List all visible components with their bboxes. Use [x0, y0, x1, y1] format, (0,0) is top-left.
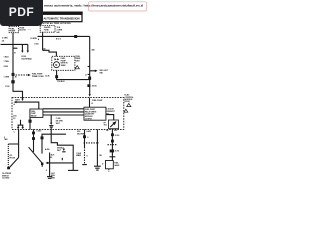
- oil switch foot: [7, 167, 10, 169]
- blob on relay bottom wire: [29, 120, 32, 123]
- branch arrow right from W3: [90, 70, 96, 72]
- wire P with corner: [42, 134, 66, 153]
- svg-text:1 TAN: 1 TAN: [4, 60, 10, 63]
- wire W3 vertical: [89, 36, 91, 94]
- wire A: [84, 129, 86, 147]
- oil switch arm: [10, 158, 19, 168]
- junction blob on W1: [12, 73, 15, 76]
- stub below open box: [108, 169, 110, 172]
- pump motor circle: [54, 62, 60, 68]
- svg-text:40: 40: [15, 76, 17, 79]
- ground G117: [47, 176, 52, 178]
- svg-text:C: C: [14, 131, 16, 133]
- thick wire T: [96, 129, 98, 166]
- connector blob on pump wire: [55, 75, 58, 78]
- warning triangle 3: [124, 109, 128, 112]
- step wire W2 to pump box: [43, 50, 57, 56]
- internal arrow line to relay: [15, 102, 39, 109]
- oil switch fixed post: [18, 144, 20, 158]
- svg-text:A 450: A 450: [45, 148, 50, 151]
- switch 2 contact dot: [41, 163, 43, 165]
- svg-text:RELAY: RELAY: [31, 114, 38, 117]
- svg-text:HOT AT ALL TIMES: HOT AT ALL TIMES: [43, 22, 60, 25]
- svg-text:3 ORN: 3 ORN: [2, 37, 8, 39]
- svg-text:AUTOMATIC TRANSMISSION: AUTOMATIC TRANSMISSION: [44, 17, 80, 21]
- svg-text:BLOCK: BLOCK: [19, 30, 26, 32]
- svg-text:A 450: A 450: [86, 130, 91, 133]
- warning triangle 1: [75, 66, 79, 69]
- fuse dashed box F2: [40, 26, 55, 33]
- oil switch feed wire: [8, 129, 18, 144]
- wire W1 main left vertical: [13, 33, 23, 100]
- wire H1 row: [1, 43, 28, 45]
- blob on wire P: [41, 136, 44, 139]
- ECM dashed boundary: [12, 98, 124, 130]
- svg-text:UNIT: UNIT: [75, 60, 80, 62]
- H1 drop 2: [27, 44, 29, 51]
- wire W2 from fuse F2: [42, 32, 44, 50]
- svg-text:440: 440: [92, 49, 95, 52]
- pin tick on W3 lower: [88, 73, 90, 75]
- svg-text:150: 150: [99, 155, 102, 157]
- svg-text:15 BRN: 15 BRN: [30, 38, 37, 40]
- svg-text:B: B: [14, 53, 16, 55]
- fuse block dashed box F1: [9, 26, 18, 32]
- red link box: [89, 2, 147, 11]
- svg-text:C100: C100: [34, 43, 38, 45]
- A end bar: [82, 164, 87, 166]
- svg-text:S 211: S 211: [115, 151, 119, 153]
- connector blob 2 on W1: [11, 80, 14, 83]
- wire R to ground: [49, 153, 51, 177]
- W3 pin stub: [89, 98, 91, 108]
- svg-text:WHT: WHT: [57, 150, 62, 152]
- connector bars: [49, 125, 53, 127]
- ground under T: [94, 165, 101, 167]
- W1 stub right: [13, 47, 17, 49]
- svg-text:C D16: C D16: [36, 131, 41, 133]
- tick bar: [110, 156, 116, 158]
- svg-text:450: 450: [76, 154, 79, 157]
- svg-text:B C D: B C D: [56, 39, 62, 41]
- deco triangle mid bottom: [63, 149, 65, 151]
- svg-text:G: G: [86, 155, 88, 157]
- relay bottom wire: [29, 117, 31, 129]
- open box component: [106, 161, 114, 169]
- ECM pin stub arrows bottom-left: [18, 124, 24, 126]
- svg-text:BATT: BATT: [15, 99, 21, 102]
- wire W_mid: [33, 129, 35, 152]
- svg-text:A5: A5: [106, 129, 108, 132]
- Q ground bar: [68, 169, 78, 171]
- warning triangle 2: [127, 103, 131, 106]
- dashed connector row: [84, 142, 100, 144]
- svg-text:S: S: [87, 137, 89, 139]
- pin tick on W3 upper: [88, 66, 90, 68]
- svg-text:A: A: [85, 73, 87, 76]
- relay to ECM label box wires: [43, 108, 84, 110]
- H1 drop 1: [21, 44, 23, 51]
- svg-text:S168: S168: [4, 66, 8, 68]
- switch 2 arm: [29, 147, 43, 163]
- svg-text:emas automotriz, web: http://m: emas automotriz, web: http://mecanicaaut…: [44, 4, 143, 8]
- svg-text:D1: D1: [13, 118, 15, 120]
- pump feed arrows inside: [55, 58, 57, 60]
- splice blob 2 on W3: [87, 84, 90, 87]
- svg-text:TAN: TAN: [4, 138, 8, 141]
- svg-text:2A: 2A: [2, 40, 5, 43]
- svg-text:WHT: WHT: [56, 123, 61, 125]
- wire Q stepped: [51, 128, 73, 171]
- svg-text:S 210: S 210: [115, 135, 119, 137]
- svg-text:.......: .......: [28, 28, 32, 30]
- relay coil box: [109, 120, 119, 129]
- dashed branch arrow from W1: [13, 74, 28, 76]
- wire H2 horizontal: [38, 35, 90, 37]
- svg-text:HOT IN RUN: HOT IN RUN: [60, 23, 71, 25]
- W1 pin arrowhead into ECM: [21, 99, 23, 101]
- title box: [41, 12, 82, 22]
- svg-text:C 439: C 439: [56, 117, 61, 120]
- svg-text:150 BLK: 150 BLK: [57, 81, 65, 83]
- ECM label box: [84, 107, 106, 120]
- svg-text:1 BLK: 1 BLK: [4, 57, 10, 59]
- wire label box to coil box: [106, 115, 114, 120]
- svg-text:PRIME CONN: PRIME CONN: [32, 76, 44, 78]
- svg-text:A: A: [14, 103, 16, 106]
- svg-text:SIG: SIG: [104, 125, 108, 127]
- oil switch dotted drop: [7, 144, 9, 167]
- svg-text:(ECM): (ECM): [125, 101, 131, 103]
- svg-text:CLOSED: CLOSED: [2, 178, 10, 180]
- pump return wire: [57, 70, 90, 79]
- svg-text:1 ORN: 1 ORN: [4, 77, 10, 79]
- blobs on W_mid: [32, 132, 35, 135]
- switch 2 stub: [41, 165, 43, 167]
- svg-text:PR SW: PR SW: [9, 158, 15, 160]
- blobs on W_right: [111, 133, 114, 136]
- svg-text:PUMP: PUMP: [10, 31, 16, 33]
- svg-text:FUSE: FUSE: [44, 30, 50, 32]
- svg-text:OUTPUT: OUTPUT: [85, 119, 93, 121]
- svg-text:A1 B: A1 B: [45, 75, 50, 78]
- svg-text:D: D: [102, 163, 104, 165]
- svg-text:150 B: 150 B: [92, 86, 97, 88]
- svg-text:640: 640: [57, 31, 60, 34]
- svg-text:B: B: [92, 103, 94, 105]
- connector blob on H2: [74, 35, 77, 38]
- svg-text:GRD: GRD: [51, 177, 56, 179]
- svg-text:C102: C102: [5, 86, 9, 88]
- PDF badge overlay: [0, 0, 43, 26]
- blob on A: [83, 135, 86, 138]
- svg-text:FUEL PUMP: FUEL PUMP: [92, 100, 103, 102]
- svg-text:TANK: TANK: [61, 64, 67, 67]
- svg-text:A6: A6: [43, 48, 45, 51]
- svg-text:IND: IND: [100, 73, 104, 75]
- svg-text:M: M: [55, 64, 57, 67]
- W3 arrowhead into ECM: [89, 94, 91, 96]
- svg-text:BULKHEAD: BULKHEAD: [22, 57, 33, 60]
- svg-text:A: A: [38, 38, 40, 41]
- fuel pump relay box: [30, 109, 43, 117]
- svg-text:G: G: [46, 170, 48, 172]
- splice blob on W3: [88, 77, 91, 80]
- svg-text:450: 450: [49, 156, 52, 159]
- S arrow line: [47, 162, 73, 164]
- svg-text:GAGE: GAGE: [114, 164, 120, 167]
- svg-text:416: 416: [114, 129, 117, 132]
- drop wire from bundle: [50, 115, 52, 123]
- fuel pump dashed box: [52, 56, 75, 70]
- wire W_right below coil: [111, 129, 113, 161]
